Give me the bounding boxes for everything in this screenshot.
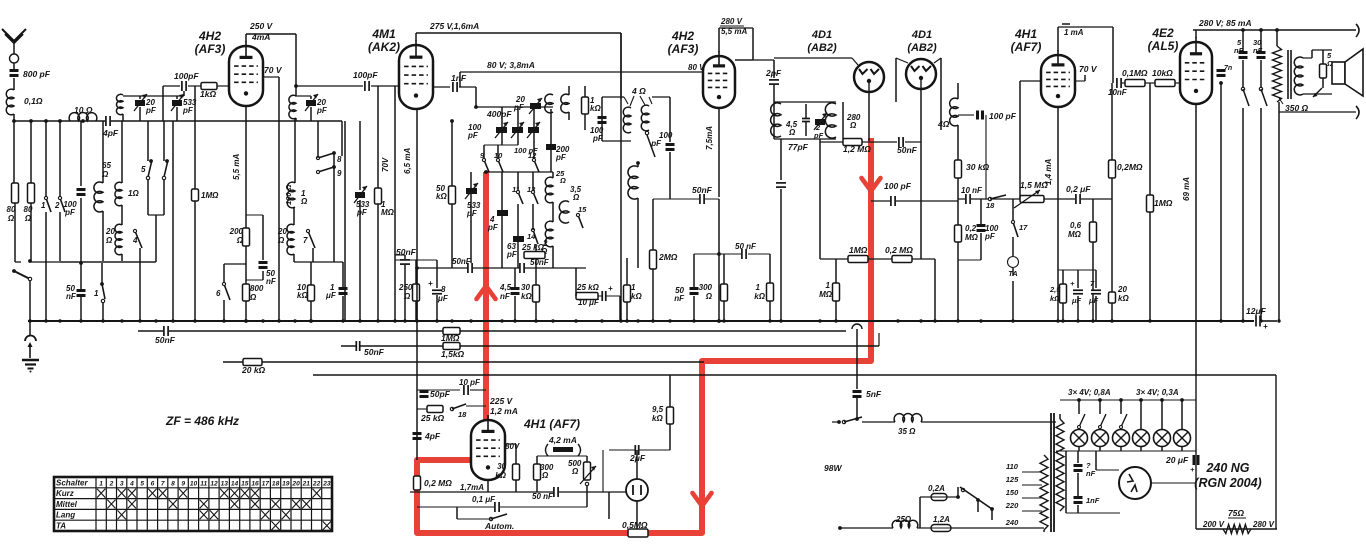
coil IF lower	[636, 161, 640, 165]
svg-text:kΩ: kΩ	[754, 292, 765, 301]
red arrowhead pointing down on x=702 riser	[693, 493, 712, 506]
connector TA phono input	[1008, 257, 1019, 268]
svg-text:69 mA: 69 mA	[1182, 177, 1191, 201]
coil 10 Ohm in bus	[69, 113, 97, 121]
capacitor 5nF and switch	[1242, 30, 1244, 51]
fuse 1,2A	[931, 525, 951, 532]
dial lamps	[1078, 400, 1080, 414]
coil IF can 2 secondary	[825, 103, 836, 138]
svg-text:4,2 mA: 4,2 mA	[548, 435, 577, 445]
capacitor 50pF	[420, 390, 429, 393]
svg-text:25Ω: 25Ω	[895, 515, 912, 524]
svg-text:1MΩ: 1MΩ	[849, 245, 868, 255]
coil 0,1 Ohm antenna	[6, 89, 14, 115]
svg-text:+: +	[428, 279, 433, 288]
svg-text:8: 8	[171, 480, 175, 487]
svg-text:0,1MΩ: 0,1MΩ	[1122, 68, 1148, 78]
wire lamp rail top	[1060, 399, 1196, 401]
switch 1	[45, 121, 47, 196]
capacitor 50nF IF cathode bypass	[690, 287, 699, 290]
wire anode 275V line to right	[415, 33, 417, 41]
wire red highlighted signal path (vertical into 4H1 AF7 grid)	[483, 172, 489, 438]
wire x820 AVC column	[819, 142, 821, 259]
svg-text:0,6: 0,6	[1070, 221, 1082, 230]
capacitor variable black right	[528, 127, 539, 133]
resistor 300 Ohm	[536, 456, 538, 464]
svg-text:Ω: Ω	[572, 193, 580, 202]
svg-text:15: 15	[241, 480, 249, 487]
svg-text:Ω: Ω	[571, 467, 579, 476]
switch 17	[1012, 199, 1014, 220]
svg-text:100pF: 100pF	[174, 71, 199, 81]
svg-text:50nF: 50nF	[530, 258, 550, 267]
wire bottom mains line	[1196, 528, 1277, 530]
svg-text:Mittel: Mittel	[56, 500, 78, 509]
svg-text:nF: nF	[1234, 46, 1244, 55]
svg-text:+: +	[1070, 279, 1075, 288]
switch 7	[308, 231, 315, 248]
svg-text:5: 5	[140, 480, 144, 487]
tube 4H2 (AF3) first RF amp	[229, 46, 263, 106]
antenna coupling loop	[10, 54, 19, 63]
svg-text:1MΩ: 1MΩ	[441, 333, 460, 343]
svg-text:200 V: 200 V	[1202, 520, 1225, 529]
wire x719 down to bus	[718, 199, 720, 321]
svg-text:4mA: 4mA	[251, 32, 270, 42]
capacitor 4pF AF	[413, 432, 422, 435]
svg-text:kΩ: kΩ	[631, 292, 642, 301]
svg-text:4Ω: 4Ω	[937, 119, 950, 129]
transformer core	[1050, 413, 1052, 532]
resistor 5 Ohm voice coil	[1322, 50, 1324, 64]
capacitor 10nF AF	[965, 194, 971, 204]
capacitor 533pF second gang	[466, 188, 477, 194]
wire cathode y492	[410, 491, 640, 493]
capacitor 100pF AF	[958, 114, 974, 116]
svg-text:(AB2): (AB2)	[807, 42, 837, 54]
svg-text:5: 5	[141, 165, 146, 174]
svg-text:20: 20	[105, 227, 115, 236]
svg-text:5,5 mA: 5,5 mA	[232, 154, 241, 180]
svg-text:kΩ: kΩ	[436, 192, 447, 201]
resistor 1,2MOhm diode load	[820, 141, 843, 143]
resistor 80 Ohm (2)	[28, 183, 35, 203]
svg-text:240: 240	[1005, 518, 1019, 527]
resistor 1MOhm grid leak	[1149, 83, 1151, 195]
switch 4	[135, 231, 142, 248]
wire speaker loop	[1303, 57, 1312, 59]
resistor 1MOhm osc grid	[377, 86, 379, 188]
svg-text:4 Ω: 4 Ω	[631, 86, 646, 96]
output transformer core	[1287, 50, 1289, 99]
switch Autom	[489, 517, 492, 520]
capacitor 50nF mid lower	[356, 341, 361, 351]
red arrowhead pointing down on x=871 riser	[862, 178, 881, 191]
resistor 9,5kOhm	[669, 403, 671, 407]
capacitor 4pF series in bus	[105, 116, 111, 126]
svg-text:Kurz: Kurz	[56, 489, 74, 498]
wire x173 vertical	[172, 121, 174, 321]
svg-text:kΩ: kΩ	[1050, 294, 1060, 303]
switch 15	[578, 215, 583, 228]
svg-text:30: 30	[521, 283, 530, 292]
svg-text:7n: 7n	[1224, 65, 1232, 72]
capacitor 50nF AVC	[741, 249, 747, 259]
svg-text:17: 17	[262, 480, 270, 487]
wire grid x1020	[1020, 80, 1041, 82]
svg-text:5nF: 5nF	[866, 389, 882, 399]
wire x295 column down	[294, 118, 296, 183]
coil 100 Ohm osc padding	[289, 95, 296, 119]
svg-text:21: 21	[302, 480, 311, 487]
wire speaker return line	[1279, 111, 1356, 113]
svg-text:1: 1	[826, 281, 831, 290]
svg-text:Ω: Ω	[7, 214, 15, 223]
svg-text:50 nF: 50 nF	[735, 242, 757, 251]
svg-text:20 μF: 20 μF	[1165, 455, 1189, 465]
svg-text:100: 100	[659, 131, 673, 140]
capacitor 533pF tuning	[172, 100, 182, 106]
wire diode 1 load	[868, 92, 870, 141]
svg-text:75Ω: 75Ω	[1228, 508, 1244, 518]
wire IF can 1 left rail	[601, 97, 603, 141]
svg-text:100 pF: 100 pF	[989, 111, 1017, 121]
capacitor 1nF rectifier 1	[1077, 451, 1079, 463]
svg-text:Ω: Ω	[788, 128, 796, 137]
svg-text:8: 8	[337, 155, 342, 164]
wire diode 1 anode feed	[774, 57, 852, 59]
svg-text:250: 250	[398, 283, 413, 292]
svg-text:0,1Ω: 0,1Ω	[24, 96, 43, 106]
rectifier tube 240NG	[1119, 467, 1151, 499]
wire AVC bus y331	[138, 330, 846, 332]
resistor 0,2MOhm AVC 2	[892, 256, 912, 263]
wire 1nF from mixer grid	[433, 86, 450, 88]
wire cathode x246 down	[245, 106, 247, 228]
coil 1 Ohm second	[287, 182, 295, 208]
svg-text:1MΩ: 1MΩ	[1154, 198, 1173, 208]
svg-text:225 V: 225 V	[489, 396, 514, 406]
svg-text:22: 22	[312, 480, 321, 487]
svg-text:1,4 mA: 1,4 mA	[1044, 159, 1053, 185]
svg-text:100 pF: 100 pF	[884, 181, 912, 191]
capacitor 7nF tone	[1220, 83, 1222, 321]
svg-text:(AF7): (AF7)	[1011, 40, 1042, 54]
capacitor 50nF IF amp cathode	[653, 198, 719, 200]
svg-text:80 V; 3,8mA: 80 V; 3,8mA	[487, 60, 535, 70]
resistor 2MOhm	[650, 250, 657, 269]
capacitor 20pF trimmer second	[306, 100, 316, 106]
wire y96 coil top	[123, 95, 184, 97]
svg-text:4H1: 4H1	[1014, 27, 1037, 41]
svg-text:ZF = 486 kHz: ZF = 486 kHz	[165, 414, 239, 428]
svg-text:pF: pF	[182, 106, 194, 115]
svg-text:1: 1	[94, 289, 99, 298]
coil IF can 1 primary	[623, 107, 631, 133]
resistor 10kOhm grid	[1155, 80, 1175, 87]
tube 4H1 (AF7) AF preamp	[1041, 55, 1075, 107]
svg-text:800 pF: 800 pF	[23, 69, 51, 79]
capacitor 7uF to bus	[1095, 270, 1097, 288]
wire bank top y107	[476, 106, 553, 108]
connector indicator jack	[626, 479, 648, 501]
svg-text:1nF: 1nF	[451, 73, 467, 83]
wire transformer top connection	[1059, 414, 1061, 419]
svg-text:70 V: 70 V	[264, 65, 283, 75]
svg-text:6,5 mA: 6,5 mA	[403, 148, 412, 174]
svg-text:nF: nF	[66, 292, 77, 301]
svg-text:(AF3): (AF3)	[668, 42, 699, 56]
resistor 1kOhm osc	[582, 97, 589, 114]
resistor 1MOhm RF grid leak	[194, 86, 196, 189]
resistor 1kOhm to bus	[624, 285, 631, 302]
svg-text:nF: nF	[1086, 469, 1096, 478]
svg-text:300: 300	[699, 283, 713, 292]
capacitor 533pF osc tuning	[355, 192, 365, 198]
svg-text:MΩ: MΩ	[965, 233, 979, 242]
svg-text:pF: pF	[145, 106, 157, 115]
svg-text:nF: nF	[1253, 46, 1263, 55]
svg-text:14: 14	[231, 480, 239, 487]
svg-text:Ω: Ω	[559, 176, 566, 185]
svg-text:250 V: 250 V	[249, 21, 274, 31]
wire heater line y422	[862, 421, 895, 423]
svg-text:18: 18	[986, 201, 995, 210]
svg-text:10 nF: 10 nF	[961, 186, 983, 195]
wire tube cathode stub	[487, 480, 489, 492]
switch 18 AF	[988, 197, 991, 200]
svg-text:25 kΩ: 25 kΩ	[576, 283, 600, 292]
wire bus y346	[341, 345, 879, 347]
svg-text:7: 7	[303, 236, 308, 245]
svg-text:+: +	[1190, 465, 1195, 474]
svg-text:5,5 mA: 5,5 mA	[721, 27, 747, 36]
capacitor 400pF variable black mid	[512, 127, 523, 133]
switch 6 and 800 Ohm resistor to bus	[224, 263, 246, 265]
svg-text:4: 4	[132, 236, 138, 245]
svg-text:pF: pF	[467, 131, 479, 140]
svg-text:Ω: Ω	[403, 292, 411, 301]
svg-text:0,2A: 0,2A	[928, 484, 945, 493]
svg-text:98W: 98W	[824, 463, 842, 473]
svg-text:kΩ: kΩ	[652, 414, 663, 423]
switch 1 left	[101, 263, 103, 283]
svg-text:13: 13	[221, 480, 229, 487]
svg-text:3: 3	[120, 480, 124, 487]
svg-text:200: 200	[229, 227, 244, 236]
svg-text:4: 4	[129, 480, 134, 487]
svg-text:Schalter: Schalter	[56, 478, 88, 487]
capacitor 10pF	[463, 385, 469, 395]
wire x621 long vertical from 275V line	[620, 33, 622, 321]
resistor 1 kOhm to bus	[767, 283, 774, 301]
wire cathode 1,4mA down	[1057, 107, 1059, 321]
antenna symbol	[2, 29, 26, 43]
capacitor 5nF mains	[853, 390, 862, 393]
svg-text:4pF: 4pF	[102, 128, 119, 138]
svg-text:pF: pF	[984, 232, 996, 241]
resistor 1,5MOhm volume	[1020, 196, 1044, 203]
capacitor 0,2uF series AF	[1075, 194, 1081, 204]
switch mains top	[837, 420, 841, 424]
wire 280V to IF amp anode	[718, 40, 720, 52]
svg-text:0,5MΩ: 0,5MΩ	[622, 520, 648, 530]
coil 20 Ohm second	[287, 224, 294, 255]
capacitor 50nF detector	[898, 137, 904, 147]
svg-text:0,2: 0,2	[965, 224, 977, 233]
wire lamp rail bottom	[1056, 450, 1196, 452]
svg-text:4pF: 4pF	[424, 431, 441, 441]
wire x476 down to switch bank	[475, 87, 477, 107]
svg-text:0,2MΩ: 0,2MΩ	[1117, 162, 1143, 172]
svg-text:nF: nF	[674, 294, 685, 303]
svg-text:20: 20	[291, 480, 300, 487]
svg-text:(AF3): (AF3)	[195, 42, 226, 56]
wire 100pF coupling from anode	[296, 85, 363, 87]
wire output cathode x1196	[1195, 104, 1197, 376]
svg-text:50nF: 50nF	[897, 145, 918, 155]
svg-text:10: 10	[190, 480, 198, 487]
wire main ground bus	[28, 320, 1254, 322]
svg-text:17: 17	[1019, 223, 1028, 232]
svg-text:Ω: Ω	[249, 293, 257, 302]
coil antenna primary x123	[116, 94, 123, 114]
capacitor 10nF coupling	[1116, 78, 1122, 88]
svg-text:1: 1	[631, 283, 636, 292]
svg-text:100 pF: 100 pF	[514, 146, 538, 155]
resistor 250 Ohm decoupling	[415, 260, 417, 284]
svg-text:240 NG: 240 NG	[1205, 461, 1249, 475]
svg-text:80 V: 80 V	[688, 63, 705, 72]
svg-text:10 μF: 10 μF	[578, 298, 600, 307]
capacitor 20pF osc trimmer on top wire	[530, 103, 541, 109]
resistor 1kOhm grid stopper	[188, 85, 201, 87]
resistor 2,5kOhm to bus	[1062, 270, 1064, 284]
capacitor 77pF	[802, 118, 810, 123]
capacitor 100pF IF can 1 right	[666, 143, 675, 146]
svg-text:20: 20	[1117, 285, 1127, 294]
svg-text:pF: pF	[513, 103, 525, 112]
wire x921 to AVC	[920, 142, 922, 259]
switch speaker	[1313, 88, 1322, 97]
resistor 25kOhm AF	[427, 406, 443, 413]
capacitor 12uF electrolytic in ground bus	[1255, 316, 1261, 327]
svg-text:9: 9	[181, 480, 185, 487]
svg-text:Ω: Ω	[277, 236, 285, 245]
svg-text:50 nF: 50 nF	[532, 492, 554, 501]
svg-text:10nF: 10nF	[1108, 88, 1128, 97]
svg-text:0,2 MΩ: 0,2 MΩ	[885, 245, 913, 255]
svg-text:10 pF: 10 pF	[459, 378, 481, 387]
capacitor 100pF interstage	[364, 81, 370, 91]
switch 8 9 pair	[318, 153, 334, 158]
resistor 20kOhm to bus	[1109, 292, 1116, 303]
svg-text:25 kΩ: 25 kΩ	[521, 243, 545, 252]
svg-text:Ω: Ω	[105, 236, 113, 245]
svg-text:125: 125	[1006, 475, 1019, 484]
svg-text:TA: TA	[56, 522, 66, 531]
wire right vertical x1196 down to mains section	[1195, 375, 1197, 529]
svg-text:19: 19	[282, 480, 290, 487]
wire y145 bank	[484, 144, 518, 146]
resistor 0,2MOhm on red riser	[414, 476, 421, 490]
svg-text:1,2 MΩ: 1,2 MΩ	[843, 144, 871, 154]
svg-text:9: 9	[337, 169, 342, 178]
svg-text:110: 110	[1006, 462, 1019, 471]
svg-text:pF: pF	[316, 106, 328, 115]
output transformer primary	[1273, 46, 1282, 102]
fuse 0,2A	[920, 496, 931, 498]
resistor 0,2MOhm AF right	[1111, 83, 1113, 160]
resistor 300 Ohm IF cathode	[721, 284, 728, 301]
wire y261 mixer bottom	[60, 261, 156, 263]
svg-text:μF: μF	[325, 291, 337, 300]
capacitor 50nF x781 to bus	[780, 139, 782, 180]
svg-text:4M1: 4M1	[371, 27, 396, 41]
coil 2 Ohm	[545, 221, 553, 247]
svg-text:Ω: Ω	[705, 292, 713, 301]
svg-text:(RGN 2004): (RGN 2004)	[1194, 476, 1261, 490]
tube 4H1 (AF7) AF output driver	[471, 420, 505, 480]
svg-text:7: 7	[161, 480, 165, 487]
wire tuning bus y121	[14, 120, 342, 122]
capacitor 50nF bus lower	[138, 330, 331, 332]
AC terminal squiggle top right	[1356, 24, 1359, 37]
capacitor 1nF rectifier 2	[1074, 496, 1083, 499]
wire x184 up to grid line	[183, 86, 185, 96]
svg-text:18: 18	[272, 480, 280, 487]
wire vertical x31 with 80 Ohm resistor	[30, 121, 32, 183]
svg-text:kΩ: kΩ	[590, 104, 601, 113]
svg-text:23: 23	[322, 480, 331, 487]
wire x345 column	[344, 121, 346, 321]
wire diode 2 frame left	[895, 58, 897, 102]
wire heater line y528	[838, 526, 842, 530]
wire x670 down	[669, 375, 671, 403]
resistor 0,6MOhm	[1092, 199, 1094, 222]
wire x935 down	[934, 259, 936, 321]
svg-text:100pF: 100pF	[353, 70, 378, 80]
resistor 80 Ohm (1)	[12, 183, 19, 203]
svg-text:Ω: Ω	[24, 214, 32, 223]
capacitor 50nF cathode bypass	[246, 214, 263, 216]
svg-text:MΩ: MΩ	[1068, 230, 1082, 239]
svg-text:2: 2	[54, 201, 60, 210]
svg-text:μF: μF	[1088, 296, 1099, 305]
oscillator coil top left	[545, 94, 553, 113]
svg-text:800: 800	[250, 284, 264, 293]
capacitor 100pF AF to bus	[980, 199, 982, 224]
svg-text:3× 4V; 0,3A: 3× 4V; 0,3A	[1136, 388, 1179, 397]
oscillator coil top right	[561, 94, 569, 113]
capacitor 800pF antenna series	[10, 69, 19, 72]
transformer secondary windings	[1056, 419, 1064, 511]
ground symbol main at left	[29, 321, 31, 336]
svg-text:+: +	[1263, 322, 1268, 331]
svg-text:0,2 μF: 0,2 μF	[1066, 184, 1091, 194]
wire 6,5mA cathode column	[416, 109, 418, 321]
svg-text:1kΩ: 1kΩ	[200, 89, 216, 99]
svg-text:Ω: Ω	[849, 121, 857, 130]
coil 25 Ohm lower	[892, 520, 918, 528]
svg-text:kΩ: kΩ	[1118, 294, 1129, 303]
svg-text:nF: nF	[500, 292, 511, 301]
svg-text:4D1: 4D1	[811, 29, 832, 41]
transformer primary winding	[1040, 455, 1048, 530]
svg-text:1,5kΩ: 1,5kΩ	[441, 349, 465, 359]
wire switch 5 U link	[147, 180, 149, 215]
svg-text:280 V; 85 mA: 280 V; 85 mA	[1198, 18, 1252, 28]
